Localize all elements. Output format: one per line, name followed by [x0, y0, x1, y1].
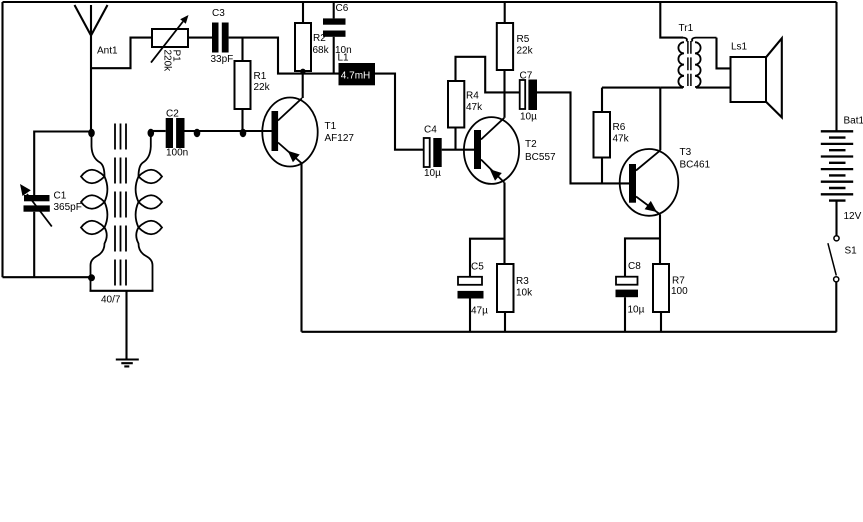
capacitor C6 10n [323, 2, 352, 74]
wire left border vertical [1, 2, 3, 277]
svg-text:22k: 22k [254, 82, 271, 93]
node dot R2 junction [300, 69, 305, 74]
coil 40/7 right winding [136, 132, 162, 291]
inductor L1 4.7mH [338, 53, 376, 86]
svg-text:10µ: 10µ [424, 168, 441, 179]
svg-text:100: 100 [671, 286, 688, 297]
capacitor C2 100n [166, 109, 189, 159]
wire T3 collector up [659, 88, 661, 151]
battery Bat1 12V [821, 2, 863, 236]
svg-text:R6: R6 [613, 122, 626, 133]
svg-text:L1: L1 [338, 53, 350, 64]
svg-text:33pF: 33pF [211, 54, 234, 65]
antenna Ant1 [75, 5, 108, 132]
transistor T3 BC461 [620, 147, 711, 216]
svg-text:C2: C2 [166, 109, 179, 120]
svg-text:T1: T1 [325, 121, 337, 132]
svg-text:BC557: BC557 [525, 152, 556, 163]
svg-text:10µ: 10µ [628, 305, 645, 316]
resistor R7 100 [653, 264, 688, 332]
wire R5 bottom to T2 collector [503, 70, 505, 118]
ground [116, 291, 139, 367]
wire C5 branch [470, 239, 505, 277]
wire C7 to T3 base [537, 92, 629, 183]
svg-text:C6: C6 [336, 3, 349, 14]
wire T2 emitter down [503, 183, 505, 265]
svg-text:Ls1: Ls1 [731, 42, 748, 53]
svg-text:10k: 10k [516, 288, 533, 299]
wire R6 top to collector node [602, 87, 660, 89]
wire P1 to C3 [188, 37, 212, 39]
capacitor C7 10u [520, 71, 538, 123]
resistor R4 47k [448, 81, 483, 128]
svg-text:C8: C8 [628, 261, 641, 272]
coil 40/7 left winding [81, 132, 107, 291]
svg-text:365pF: 365pF [54, 202, 82, 213]
svg-text:R4: R4 [466, 91, 479, 102]
capacitor C4 10u [424, 125, 442, 180]
svg-text:T2: T2 [525, 139, 537, 150]
wire bottom left to coil [3, 276, 91, 278]
wire antenna feed [91, 38, 152, 69]
svg-text:47k: 47k [613, 134, 630, 145]
resistor R2 68k [295, 2, 330, 71]
wire R2 bottom to T1 collector [302, 71, 304, 98]
transistor T2 BC557 [464, 117, 556, 184]
node dot R1 junction [240, 129, 247, 137]
wire R4 bottom lead [454, 128, 456, 150]
node dot [194, 129, 201, 137]
coil core dashed lines [115, 124, 126, 291]
svg-text:AF127: AF127 [325, 133, 355, 144]
svg-text:C7: C7 [520, 71, 533, 82]
capacitor C3 33pF [211, 8, 234, 65]
node dot antenna junction [88, 129, 95, 137]
resistor R3 10k [497, 264, 533, 332]
svg-text:R7: R7 [672, 276, 685, 287]
transistor T1 AF127 [262, 98, 354, 167]
capacitor C5 47u [458, 262, 489, 332]
node dot coil to C2 junction [148, 129, 155, 137]
svg-text:12V: 12V [844, 211, 862, 222]
wire C1 bottom lead [33, 212, 35, 278]
switch S1 [828, 236, 857, 332]
resistor R5 22k [497, 2, 534, 70]
wire T3 emitter down [659, 214, 661, 264]
svg-text:C4: C4 [424, 125, 437, 136]
wire top supply rail [3, 1, 837, 3]
node dot coil bottom junction [88, 274, 95, 281]
wire C4 to T2 base [442, 149, 474, 151]
wire L1 to C4 [375, 74, 424, 150]
capacitor C8 10u [616, 261, 645, 332]
svg-text:R3: R3 [516, 276, 529, 287]
svg-text:Tr1: Tr1 [679, 23, 694, 34]
resistor R6 47k [594, 88, 630, 184]
wire R1 bottom lead [241, 109, 243, 131]
svg-text:BC461: BC461 [680, 160, 711, 171]
wire C2 to T1 base [185, 130, 272, 132]
svg-text:R1: R1 [254, 71, 267, 82]
svg-text:4.7mH: 4.7mH [341, 71, 370, 82]
potentiometer P1 220k [151, 15, 189, 72]
svg-text:T3: T3 [680, 147, 692, 158]
wire C8 branch [625, 238, 660, 276]
svg-text:Ant1: Ant1 [97, 46, 118, 57]
svg-text:S1: S1 [845, 246, 858, 257]
svg-text:100n: 100n [166, 148, 188, 159]
wire R1 top lead [241, 38, 243, 61]
wire C3 output to node [229, 38, 339, 74]
svg-text:10µ: 10µ [520, 112, 537, 123]
svg-text:40/7: 40/7 [101, 295, 121, 306]
svg-text:Bat1: Bat1 [844, 116, 863, 127]
resistor R1 22k [235, 61, 271, 109]
wire T1 emitter to rail [300, 164, 302, 332]
svg-text:R5: R5 [517, 34, 530, 45]
variable capacitor C1 365pF [20, 184, 82, 227]
svg-text:C1: C1 [54, 191, 67, 202]
wire R4 top feedback [456, 57, 520, 93]
wire coil to C2 [151, 130, 166, 132]
transformer Tr1 [660, 2, 730, 88]
svg-text:68k: 68k [313, 45, 330, 56]
wire C1 top branch [34, 132, 91, 196]
coil 40/7 base [90, 290, 154, 292]
wire bottom ground rail [302, 331, 837, 333]
svg-text:C3: C3 [212, 8, 225, 19]
svg-text:C5: C5 [471, 262, 484, 273]
svg-text:220k: 220k [162, 50, 173, 73]
svg-text:22k: 22k [517, 46, 534, 57]
svg-text:47µ: 47µ [471, 306, 488, 317]
speaker Ls1 [717, 38, 782, 118]
svg-text:47k: 47k [466, 102, 483, 113]
